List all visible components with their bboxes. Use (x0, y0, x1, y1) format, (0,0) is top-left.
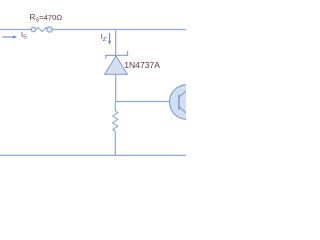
zener diode D1 triangle (105, 56, 128, 75)
resistor R (vertical zigzag) (113, 111, 118, 131)
wire top-left segment (0, 29, 31, 31)
transistor Q1 emitter lead (179, 107, 188, 115)
wire zener top (115, 30, 117, 56)
zener diode D1 cathode bar (106, 51, 128, 59)
svg-text:RS=470Ω: RS=470Ω (30, 13, 63, 24)
transistor Q1 collector lead (179, 90, 188, 98)
wire resistor to bottom (114, 131, 116, 155)
svg-text:IZ: IZ (101, 32, 107, 43)
transistor Q1 base bar (178, 94, 180, 110)
wire base (junction to transistor) (115, 101, 179, 103)
wire top-right segment (52, 29, 186, 31)
resistor RS (31, 27, 52, 32)
svg-text:1N4737A: 1N4737A (124, 60, 160, 70)
transistor Q1 body (170, 85, 205, 120)
current arrow IS (2, 36, 17, 39)
wire junction to resistor (114, 102, 116, 112)
svg-text:IS: IS (21, 30, 27, 41)
wire bottom rail (0, 154, 186, 156)
current arrow IZ (108, 33, 111, 45)
wire zener to junction (115, 74, 117, 102)
